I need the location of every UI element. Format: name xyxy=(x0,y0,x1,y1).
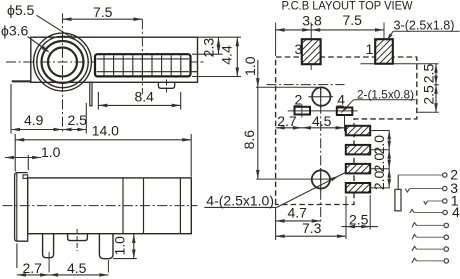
schematic spare contact row 6 xyxy=(412,235,448,240)
svg-text:2.0: 2.0 xyxy=(371,135,387,155)
dimension 8.4 xyxy=(98,89,180,110)
pcb bottom left extension xyxy=(275,208,277,240)
front view bottom tab centerline xyxy=(166,80,168,93)
svg-text:4.5: 4.5 xyxy=(312,113,332,129)
svg-text:14.0: 14.0 xyxy=(92,123,119,139)
label φ3.6 with leader xyxy=(1,23,50,53)
pad 3 label xyxy=(295,41,303,57)
svg-text:7.5: 7.5 xyxy=(93,4,113,20)
svg-text:7.3: 7.3 xyxy=(302,220,322,236)
svg-text:2.3: 2.3 xyxy=(201,38,217,58)
front view ribbed shield box xyxy=(95,54,191,76)
pad 1 xyxy=(375,39,393,64)
front view vertical centerline xyxy=(62,14,64,133)
dimension 2.7 xyxy=(17,260,49,277)
pcb top extension lines xyxy=(276,23,384,57)
dimension 2.5 pcb bottom xyxy=(342,195,379,230)
front view hole inner circle xyxy=(48,48,77,77)
big hole reference line xyxy=(256,178,330,180)
dimension 2.5 right upper xyxy=(421,64,438,85)
svg-text:1.0: 1.0 xyxy=(41,144,61,160)
right pad row 2 xyxy=(346,145,370,155)
big hole circle xyxy=(312,168,330,191)
svg-text:4: 4 xyxy=(452,204,460,220)
schematic terminal 4 xyxy=(443,204,460,220)
side view internal line c xyxy=(179,178,181,234)
svg-text:2: 2 xyxy=(295,91,303,107)
pad 4 label xyxy=(336,91,345,107)
svg-text:2.5: 2.5 xyxy=(421,85,437,105)
dimension 7.5 top xyxy=(63,4,143,21)
dimension 8.6 xyxy=(241,87,260,179)
hatch pattern def xyxy=(0,0,1,1)
schematic sleeve bar xyxy=(395,189,401,210)
pcb horizontal centerline xyxy=(267,84,345,86)
front view left mounting tab xyxy=(12,80,31,82)
svg-text:2.0: 2.0 xyxy=(371,153,387,173)
schematic spare contact row 7 xyxy=(412,246,448,251)
pad 1 bottom extension line xyxy=(361,63,439,65)
svg-text:3.8: 3.8 xyxy=(302,13,322,29)
dimension 7.3 xyxy=(276,196,346,239)
dimension 2.5 front xyxy=(63,103,88,134)
label 4-(2.5x1.0) with leader xyxy=(204,172,345,208)
extension lines right side xyxy=(192,37,241,76)
svg-text:3: 3 xyxy=(295,41,303,57)
schematic contact row 3 xyxy=(405,189,442,193)
svg-text:7.5: 7.5 xyxy=(343,12,363,28)
svg-text:2.7: 2.7 xyxy=(277,113,297,129)
dimension 2.7 pcb xyxy=(276,113,302,130)
svg-text:3-(2.5x1.8): 3-(2.5x1.8) xyxy=(394,19,455,33)
dimension 1.0 bracket xyxy=(5,144,61,170)
svg-text:2.5: 2.5 xyxy=(349,211,369,227)
svg-text:ϕ3.6: ϕ3.6 xyxy=(1,23,29,39)
front view horizontal centerline xyxy=(6,61,204,63)
pad 4 centerline tick xyxy=(344,115,346,131)
svg-text:8.6: 8.6 xyxy=(241,130,257,150)
dimension 4.5 pcb xyxy=(302,113,345,130)
svg-text:1: 1 xyxy=(366,41,374,57)
side view internal line a xyxy=(122,178,124,234)
pad 2 label xyxy=(294,91,303,107)
pad 1 label xyxy=(366,41,374,57)
dimension 7.5 pcb xyxy=(311,12,384,32)
front view body step line xyxy=(191,71,198,73)
schematic sleeve lead xyxy=(397,175,399,189)
front view pin stub xyxy=(90,82,92,106)
front view barrel second circle xyxy=(37,36,88,87)
front view barrel outer circle xyxy=(34,33,92,91)
side view middle stub centerline xyxy=(76,229,78,251)
side view horizontal centerline xyxy=(3,205,198,207)
side view left bracket xyxy=(15,173,28,242)
label 3-(2.5x1.8) with leader xyxy=(387,19,460,41)
svg-text:4.7: 4.7 xyxy=(288,205,308,221)
svg-text:8.4: 8.4 xyxy=(135,89,155,105)
svg-text:P.C.B LAYOUT TOP VIEW: P.C.B LAYOUT TOP VIEW xyxy=(282,0,413,12)
pad 4 xyxy=(337,108,353,116)
svg-text:4.4: 4.4 xyxy=(218,45,234,65)
pad 3 centerline tick xyxy=(310,64,312,70)
dimension 2.3 right xyxy=(201,37,221,57)
side pin 1 centerline xyxy=(48,252,50,273)
schematic contact row 1 xyxy=(424,201,443,204)
label 2-(1.5x0.8) with leader xyxy=(342,88,416,113)
schematic terminal 2 xyxy=(443,166,459,182)
side pin 2 centerline xyxy=(107,260,109,273)
dimension 1.0 pcb xyxy=(242,56,260,87)
pad 2 xyxy=(295,107,311,115)
svg-text:2.0: 2.0 xyxy=(371,170,387,190)
label φ5.5 with leader xyxy=(7,2,78,41)
svg-text:4.5: 4.5 xyxy=(67,260,87,276)
svg-text:2.5: 2.5 xyxy=(68,112,88,128)
svg-text:1.0: 1.0 xyxy=(242,56,258,76)
side view middle stub xyxy=(68,234,88,241)
front view body outline xyxy=(31,37,198,82)
svg-text:4.9: 4.9 xyxy=(24,112,44,128)
pcb board dashed outline xyxy=(276,57,417,205)
dimension 2.0 chain xyxy=(371,131,391,191)
dimension 4.4 right xyxy=(218,37,239,76)
schematic contact row 4 xyxy=(410,209,443,213)
front view bottom tab xyxy=(158,82,174,88)
dimension 1.0 pin xyxy=(112,234,137,259)
right pad row 1 xyxy=(346,126,370,136)
svg-text:4-(2.5x1.0): 4-(2.5x1.0) xyxy=(206,192,274,208)
svg-text:2.7: 2.7 xyxy=(23,260,43,276)
dimension 14.0 xyxy=(15,123,191,177)
dimension 2.5 right lower xyxy=(421,85,438,112)
mounting hole circle xyxy=(308,87,333,108)
front view rib centerline xyxy=(141,19,143,94)
svg-text:2.5: 2.5 xyxy=(421,64,437,84)
schematic wire row 2 xyxy=(398,174,442,176)
dimension 4.7 xyxy=(276,205,321,223)
dimension 2.0 ticks xyxy=(370,131,389,188)
schematic terminal 1 xyxy=(443,192,459,208)
title P.C.B LAYOUT TOP VIEW xyxy=(282,0,413,12)
right pad row 3 xyxy=(346,164,370,174)
dimension 3.8 xyxy=(276,13,322,32)
front view bushing circle xyxy=(42,41,84,83)
side view pin 1 xyxy=(43,234,54,258)
pcb vertical centerline through holes xyxy=(320,87,322,222)
hole top reference line xyxy=(256,86,318,88)
dimension 4.5 side xyxy=(49,260,108,277)
side view body outline xyxy=(28,178,192,234)
pad 3 xyxy=(302,39,321,64)
schematic terminal 3 xyxy=(443,180,459,196)
pad 2 crosshair xyxy=(288,104,358,117)
schematic spare contact row 5 xyxy=(412,223,448,228)
side view pin 2 xyxy=(99,234,113,259)
dimension 4.9 xyxy=(11,84,63,134)
side view internal line b xyxy=(143,178,145,234)
schematic spare contact row 8 xyxy=(412,258,448,263)
right pad row 4 xyxy=(346,183,370,193)
svg-text:4: 4 xyxy=(337,91,345,107)
right side extension lines xyxy=(417,85,439,112)
side left extension xyxy=(16,244,18,269)
svg-text:ϕ5.5: ϕ5.5 xyxy=(7,2,35,18)
svg-text:1.0: 1.0 xyxy=(112,236,128,256)
